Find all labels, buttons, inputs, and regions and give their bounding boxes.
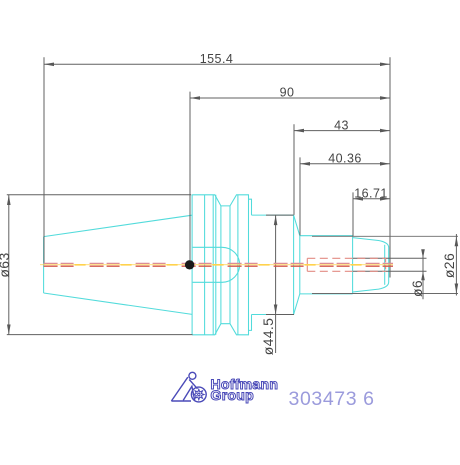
svg-text:16.71: 16.71 [354, 187, 388, 201]
nose cylinder d26 [300, 236, 353, 294]
svg-text:40.36: 40.36 [328, 152, 362, 166]
svg-text:ø63: ø63 [0, 252, 12, 277]
flange outline with V-groove [192, 195, 251, 335]
dimension 40.36 [300, 157, 390, 235]
svg-text:303473 6: 303473 6 [289, 388, 375, 410]
dimension 155.4 [44, 57, 390, 277]
end taper tip [353, 238, 389, 292]
svg-text:43: 43 [334, 119, 349, 133]
svg-text:155.4: 155.4 [200, 52, 234, 66]
centerline yellow dashes [44, 264, 393, 266]
dimension d63 [7, 195, 193, 335]
part outline: taper cone [44, 215, 193, 314]
gauge point dot [185, 260, 194, 269]
dimension d6 [353, 250, 427, 299]
flange internal verticals [205, 195, 249, 335]
svg-text:90: 90 [280, 86, 295, 100]
svg-text:Group: Group [211, 387, 255, 403]
svg-text:ø26: ø26 [441, 253, 457, 278]
svg-text:ø44.5: ø44.5 [260, 318, 276, 356]
dimension d26 [312, 236, 458, 293]
centerline red upper [44, 262, 393, 264]
dimension 16.71 [353, 192, 390, 236]
dimension 90 [190, 92, 390, 260]
centerline yellow thin [40, 264, 393, 266]
dimension 43 [294, 124, 390, 215]
drive slot capsule [193, 247, 240, 282]
logo icon [171, 372, 206, 402]
svg-text:ø6: ø6 [409, 280, 425, 297]
centerline red lower [44, 265, 393, 267]
hole d6 hidden outline [307, 258, 386, 271]
cylinder body d44.5 [252, 215, 300, 314]
dimension d44.5 [266, 215, 294, 353]
